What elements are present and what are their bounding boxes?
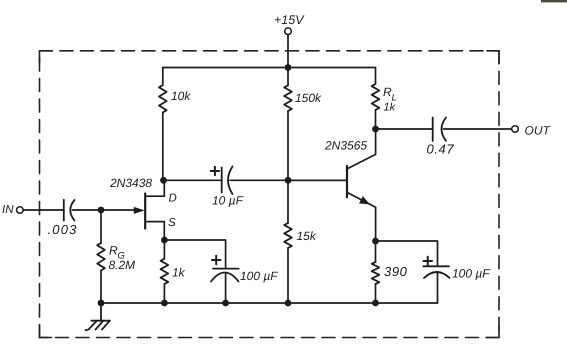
wire: 150k bottom lead to base node [287,111,289,180]
resistor 390 [372,262,408,284]
wire: 15k bottom lead [287,248,289,303]
wire: RL bottom lead to collector node [375,110,377,129]
wire: RG bottom lead [100,271,102,304]
wire: 10k bottom lead to drain node [162,113,164,181]
svg-text:100 µF: 100 µF [452,267,490,281]
svg-text:IN: IN [2,204,14,216]
node: 15k ground junction [285,300,292,307]
+15V supply terminal [274,13,305,35]
resistor RG 8.2M [97,243,135,272]
wire: emitter bypass cap bottom lead [437,272,439,303]
svg-text:100 µF: 100 µF [240,269,278,283]
svg-text:10 µF: 10 µF [212,194,244,208]
node: bypass cap ground junction [222,300,229,307]
ground [86,303,111,330]
svg-text:S: S [168,217,176,229]
node: source junction [161,237,168,244]
node: drain junction [160,177,167,184]
resistor 1k [161,259,186,284]
wire: 1k bottom lead [163,284,165,303]
node: gate junction [98,207,105,214]
node: collector / output junction [372,126,379,133]
transistor Q1 2N3438 JFET [109,176,177,240]
wire: cap to gate node [73,209,102,211]
IN terminal [2,204,23,216]
node: emitter junction [372,238,379,245]
svg-text:1k: 1k [172,266,186,280]
wire: RL top lead [375,68,377,85]
svg-text:1k: 1k [384,102,396,114]
svg-text:10k: 10k [171,89,191,103]
wire: 1k top lead [163,240,165,259]
wire: 10k top lead [162,68,164,86]
node: divider/base junction [285,177,292,184]
wire: source node rail to bypass cap [164,240,225,268]
dashed enclosure border [40,51,500,338]
capacitor 100 uF emitter bypass [423,257,490,281]
page edge artifact bar [541,0,567,2]
wire: 150k top lead [287,68,289,86]
capacitor 0.47 [427,118,455,157]
capacitor .003 [48,200,78,237]
svg-text:390: 390 [384,264,408,279]
wire: RG top lead [100,210,102,243]
capacitor 10 uF [211,167,244,208]
svg-text:15k: 15k [297,229,317,243]
capacitor 100 uF source bypass [211,256,278,283]
svg-text:D: D [169,193,177,205]
wire: output segment to OUT [444,128,512,130]
wire: drain to 10uF cap [164,179,222,181]
wire: top supply bus [163,67,376,69]
svg-text:2N3438: 2N3438 [109,176,152,190]
node: supply junction [285,64,292,71]
wire: emitter rail to bypass cap [376,241,438,266]
dashed border corner ticks [40,51,500,338]
wire: +15V stem [287,35,289,68]
wire: bypass cap bottom lead [225,273,227,303]
resistor RL 1k [372,84,397,114]
resistor 150k [284,85,322,111]
wire: 390 top lead [375,241,377,262]
svg-text:.003: .003 [48,222,78,237]
wire: input lead to coupling cap [23,209,64,211]
svg-text:+15V: +15V [274,13,305,27]
wire: ground bus [101,302,438,304]
OUT terminal [512,124,552,138]
resistor 10k [159,85,191,113]
svg-text:8.2M: 8.2M [109,258,136,272]
node: 390 ground junction [372,300,379,307]
wire: 10uF cap to base node rail [230,179,347,181]
wire: 15k top lead [287,180,289,223]
wire: base lead [288,179,347,181]
wire: 390 bottom lead [375,284,377,303]
wire: output coupling left segment [376,128,433,130]
node: 1k ground junction [161,300,168,307]
transistor Q2 2N3565 [324,129,376,241]
wire: gate lead [101,209,138,211]
resistor 15k [284,223,317,248]
svg-text:0.47: 0.47 [427,142,455,157]
node: RG ground junction [98,300,105,307]
svg-text:OUT: OUT [525,124,552,138]
svg-text:2N3565: 2N3565 [324,139,367,153]
svg-text:150k: 150k [295,91,322,105]
